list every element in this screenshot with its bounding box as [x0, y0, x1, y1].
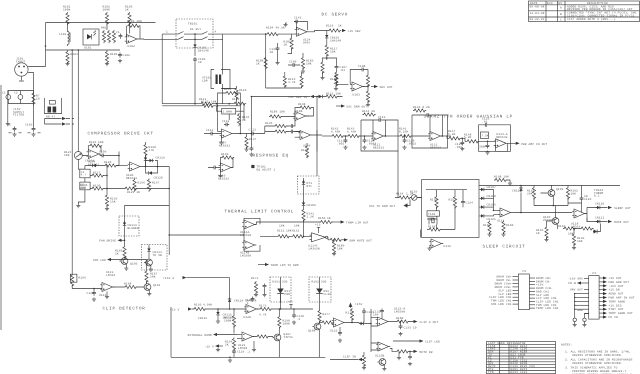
wire U109 input/out: [295, 116, 322, 137]
capacitor C131: [362, 308, 374, 323]
diode CR120 feedback bottom: [146, 167, 163, 180]
resistor R194: [225, 338, 236, 351]
svg-text:R1485.9K: R1485.9K: [464, 133, 472, 139]
resistor R176 left: [188, 333, 237, 337]
svg-text:R171: R171: [251, 277, 259, 280]
svg-text:CR114TH SW: CR114TH SW: [153, 251, 162, 257]
svg-text:THRM LIM OUT: THRM LIM OUT: [346, 222, 369, 225]
svg-text:C157 ADDED NOTE 3 (REV---): C157 ADDED NOTE 3 (REV---): [567, 17, 616, 21]
svg-text:DS1PWR: DS1PWR: [285, 290, 291, 296]
svg-text:R192 330: R192 330: [312, 281, 327, 284]
svg-text:R135: R135: [265, 122, 273, 125]
svg-text:R164: R164: [558, 225, 566, 228]
svg-text:CR119: CR119: [156, 157, 165, 160]
cap box C5: [78, 178, 90, 204]
wire from compressor to thermal comparators: [169, 234, 243, 236]
svg-text:+15 V: +15 V: [170, 309, 179, 312]
wire U107 out: [234, 133, 250, 135]
J2 pin 11 wire right: [529, 280, 551, 283]
svg-text:COMPRESSOR DRIVE CKT: COMPRESSOR DRIVE CKT: [88, 132, 154, 137]
power rail bracket: [45, 116, 62, 125]
feedback loop box U113: [479, 118, 511, 152]
junction column: [371, 309, 378, 352]
resistor R179: [346, 308, 354, 323]
test point TP101: [251, 165, 275, 171]
opto U101: [83, 29, 99, 50]
resistor R111: [199, 98, 213, 105]
resistor R196: [133, 179, 145, 192]
resistor R190: [278, 308, 290, 329]
resistor R147: [446, 130, 464, 140]
svg-text:R180: R180: [396, 317, 404, 320]
svg-text:U113-ANE5532: U113-ANE5532: [496, 133, 507, 139]
flag osc out: [369, 200, 410, 208]
ground right: [397, 352, 401, 360]
svg-text:R162: R162: [571, 190, 579, 193]
svg-text:THERMAL LIMIT CONTROL: THERMAL LIMIT CONTROL: [225, 210, 295, 215]
ground U124: [283, 23, 287, 27]
diode CR114: [147, 245, 162, 260]
wire opamp out: [99, 152, 119, 166]
svg-text:PWR AMP IN OUT: PWR AMP IN OUT: [521, 143, 547, 146]
svg-text:PWR AMP IN OUT: PWR AMP IN OUT: [609, 297, 635, 300]
svg-text:EXTERNAL DOME: EXTERNAL DOME: [188, 334, 212, 337]
capacitor C101: [116, 31, 122, 39]
capacitor C124a with ground: [479, 141, 490, 155]
svg-text:CR108: CR108: [487, 195, 496, 198]
svg-text:R104: R104: [71, 53, 79, 56]
J3 pin 12 flag right: [599, 276, 622, 280]
dc servo input rail vertical: [265, 34, 267, 88]
ground power filter: [6, 122, 10, 126]
power flag +15V: [342, 29, 361, 33]
svg-text:C121.001: C121.001: [455, 143, 463, 149]
capacitor C1 electrolytic: [2, 91, 11, 104]
wire bus to clip opamp: [72, 285, 102, 289]
svg-text:R144 2K: R144 2K: [362, 110, 375, 113]
right column resistor R177: [318, 303, 330, 323]
capacitor C142 feedback: [294, 17, 308, 31]
wire U111 out: [384, 135, 399, 137]
svg-text:U116: U116: [444, 245, 452, 248]
svg-text:R1475.9K: R1475.9K: [448, 130, 456, 136]
svg-text:OSC TO DRM OUT: OSC TO DRM OUT: [369, 205, 395, 208]
resistor R152: [290, 230, 312, 238]
J2 pin 16 wire right: [529, 297, 556, 300]
svg-text:U123-ALM339N: U123-ALM339N: [394, 308, 405, 314]
bus wire A to compressor pot: [77, 50, 79, 151]
svg-text:1: 1: [166, 31, 168, 34]
resistor R159 with ground: [483, 221, 492, 237]
capacitor C113: [249, 129, 257, 136]
J2 pin 9 wire left: [491, 303, 519, 306]
svg-text:C124: C124: [466, 202, 474, 205]
svg-text:C128: C128: [245, 299, 253, 302]
svg-text:+15: +15: [315, 224, 321, 227]
resistor R162: [566, 185, 578, 206]
svg-text:CLIP A OUT: CLIP A OUT: [420, 321, 439, 324]
svg-text:C126: C126: [87, 292, 95, 295]
resistor R141: [302, 207, 314, 236]
resistor R195: [105, 194, 118, 211]
capacitor C133 with ground: [398, 321, 416, 336]
svg-text:SRV OUT: SRV OUT: [380, 86, 393, 89]
op-amp U111: [371, 132, 385, 150]
J2 pin 19 wire right: [529, 307, 558, 310]
J3 pin 1 wire left: [568, 278, 589, 281]
feedback loop upper: [218, 88, 241, 106]
op-amp U118: [571, 209, 586, 226]
wire: [326, 55, 328, 60]
flag +15 lower rail: [170, 304, 246, 312]
flag +15V rail: [62, 117, 74, 120]
svg-text:R198 10K: R198 10K: [494, 176, 509, 179]
svg-text:11-04-98: 11-04-98: [530, 12, 545, 15]
svg-text:C142: C142: [294, 17, 302, 20]
svg-text:C129 .1: C129 .1: [237, 351, 250, 354]
ground: [105, 62, 109, 66]
oscillator box OSC101: [422, 180, 479, 238]
resistor R102: [103, 6, 111, 26]
J2 pin 14 wire right: [529, 290, 549, 293]
capacitor C141 with ground: [249, 146, 253, 156]
capacitor C117 with ground: [337, 135, 348, 149]
svg-text:NOTES:: NOTES:: [561, 344, 572, 347]
resistor network RN101: [101, 27, 116, 44]
resistor R125 feedback: [88, 141, 102, 152]
wire U114A out long: [255, 222, 321, 225]
svg-text:CR109: CR109: [487, 204, 496, 207]
contact S1b: [202, 31, 208, 34]
svg-text:R152: R152: [292, 230, 300, 233]
op-amp U117: [497, 208, 512, 223]
op-amp U123A: [376, 308, 406, 327]
connector J3: [589, 272, 599, 319]
capacitor C127 with ground: [262, 284, 266, 297]
resistor R116: [326, 25, 342, 33]
svg-text:R710: R710: [36, 95, 40, 101]
wire box2 to column: [280, 294, 282, 310]
svg-text:R156: R156: [430, 199, 438, 202]
svg-text:R125: R125: [89, 141, 97, 144]
resistor R145: [399, 128, 430, 138]
trimmer R155: [410, 191, 422, 201]
ground below U107: [219, 136, 223, 145]
svg-text:Y101: Y101: [428, 213, 436, 216]
svg-text:R160: R160: [506, 224, 514, 227]
capacitor C121 with ground: [455, 138, 464, 151]
wire osc internals: [426, 190, 467, 230]
wire pot to op-amp: [78, 151, 88, 156]
svg-text:R191 330: R191 330: [273, 281, 288, 284]
LP input wire: [322, 135, 331, 137]
svg-text:R110: R110: [239, 89, 247, 92]
capacitor C140 with ground: [292, 308, 304, 324]
resistor R136: [265, 130, 290, 133]
resistor R148: [464, 133, 479, 143]
J2 pin 4 wire left: [495, 286, 519, 289]
wire center drop: [194, 34, 196, 43]
svg-text:+15 SRV: +15 SRV: [348, 30, 361, 33]
resistor R104 lower: [66, 51, 78, 64]
capacitor C108: [358, 65, 366, 71]
feedback under loop U113: [496, 143, 516, 151]
svg-text:CLIP LED: CLIP LED: [425, 341, 440, 344]
op-amp U114B: [240, 241, 256, 258]
inductor L101 (coil): [59, 30, 70, 46]
svg-text:C: C: [560, 19, 562, 22]
J3 pin 21 flag right: [599, 312, 633, 316]
svg-text:U101: U101: [84, 47, 92, 50]
svg-text:+15 OUT: +15 OUT: [609, 277, 622, 280]
wire U118: [585, 208, 588, 222]
resistor R117: [325, 44, 337, 57]
resistor R138 feedback of U108: [295, 103, 314, 116]
J2 pin 5 wire left: [498, 289, 518, 292]
resistor R110: [235, 87, 247, 100]
resistor R118: [321, 58, 327, 76]
capacitor C105: [193, 57, 206, 64]
svg-text:R158: R158: [428, 226, 436, 229]
wire servo column: [326, 31, 328, 35]
svg-text:R137: R137: [249, 138, 257, 141]
svg-text:CR107: CR107: [487, 186, 496, 189]
terminal block TB101 dashed outline: [176, 19, 213, 48]
svg-text:R127: R127: [93, 172, 101, 175]
svg-text:SPK LED CH1: SPK LED CH1: [491, 303, 512, 306]
wire sense down: [303, 194, 305, 202]
resistor R156 in osc: [430, 196, 438, 209]
power stub +15: [288, 301, 294, 310]
svg-text:4: 4: [215, 31, 217, 34]
compressor top rail resistor R122: [325, 92, 341, 98]
contact S1a: [178, 31, 184, 34]
sub box XTAL: [427, 211, 440, 216]
capacitor C116 left of U110: [208, 166, 221, 170]
feedback loop U111: [361, 110, 398, 151]
wire: [194, 49, 196, 56]
op-amp U124: [295, 27, 311, 44]
svg-text:R173: R173: [259, 305, 267, 308]
svg-text:TEMP AGND: TEMP AGND: [609, 300, 626, 303]
svg-text:CR111: CR111: [595, 217, 604, 220]
svg-text:TB101: TB101: [188, 23, 197, 26]
diode CR117: [346, 322, 371, 325]
resistor R7: [32, 92, 40, 105]
svg-text:STBY OUT: STBY OUT: [609, 308, 624, 311]
svg-text:U118: U118: [571, 223, 579, 226]
J3 pin 13 flag right: [599, 280, 629, 284]
op-amp U106: [126, 162, 142, 180]
wire compressor out going right and down: [142, 167, 169, 256]
svg-text:RV: RV: [559, 2, 563, 5]
svg-text:C111: C111: [206, 129, 214, 132]
bottom right: wire from column to opamp C: [319, 322, 321, 324]
J3 pin 3 wire left: [570, 289, 589, 292]
diode CR103: [251, 95, 342, 99]
resistor R120: [366, 73, 369, 88]
flag SPK LED input: [93, 258, 147, 262]
wire TB row to servo input: [223, 33, 266, 35]
svg-text:SLEEP CIRCUIT: SLEEP CIRCUIT: [483, 245, 526, 250]
vactrol VT101: [202, 70, 230, 89]
svg-text:R126: R126: [104, 161, 112, 164]
svg-text:CR121: CR121: [487, 218, 496, 221]
resistor R184: [266, 27, 295, 36]
svg-text:CLIP IN: CLIP IN: [343, 356, 356, 359]
svg-text:R138: R138: [298, 103, 306, 106]
J2 pin 15 wire right: [529, 294, 549, 297]
svg-text:CR120: CR120: [154, 177, 163, 180]
resistor R112: [232, 98, 246, 105]
flag therm A: [332, 220, 369, 224]
svg-text:GND: GND: [577, 309, 583, 312]
op-amp U114A: [240, 220, 256, 237]
capacitor C129: [232, 349, 236, 358]
resistor R181: [390, 349, 414, 354]
wire EQ input row: [162, 105, 240, 107]
svg-text:R179: R179: [346, 312, 354, 315]
svg-text:R159: R159: [483, 224, 491, 227]
svg-text:+15: +15: [288, 301, 294, 304]
transistor Q108: [308, 322, 321, 357]
svg-text:R1134.7K: R1134.7K: [288, 78, 296, 84]
svg-text:+15 DIG: +15 DIG: [609, 304, 622, 307]
ground left bottom: [216, 348, 220, 352]
op-amp U122: [330, 318, 346, 333]
capacitor C103 with ground: [25, 124, 41, 137]
svg-text:C102: C102: [123, 54, 131, 57]
op-amp U120: [244, 305, 259, 320]
crystal Y101 plates: [427, 218, 437, 225]
svg-text:09-08-98: 09-08-98: [530, 6, 545, 9]
svg-text:CR104: CR104: [85, 160, 94, 163]
svg-text:SRV OUT: SRV OUT: [570, 289, 583, 292]
svg-text:Q105: Q105: [130, 263, 138, 266]
svg-text:MUTE OUT: MUTE OUT: [614, 221, 629, 224]
resistor R101: [63, 6, 71, 26]
ground below U110: [218, 170, 222, 178]
diode CR115: [216, 308, 234, 323]
capacitor C6 with ground: [7, 124, 22, 137]
svg-text:R133: R133: [224, 88, 232, 91]
resistor R186: [269, 111, 295, 119]
svg-text:U122: U122: [330, 330, 338, 333]
resistor R140 above U110: [221, 153, 235, 168]
svg-text:TEMP LED CH1: TEMP LED CH1: [536, 307, 559, 310]
J3 pin 18 flag right: [599, 300, 625, 304]
svg-text:CR115: CR115: [198, 317, 207, 320]
resistor R139 below: [301, 143, 309, 158]
svg-text:CR110: CR110: [595, 203, 604, 206]
svg-text:R8 47: R8 47: [46, 116, 55, 119]
J2 pin 17 wire right: [529, 300, 558, 303]
J3 pin 20 flag right: [599, 308, 624, 312]
diode CR104: [85, 160, 104, 170]
svg-text:DATE: DATE: [530, 2, 538, 5]
resistor R173: [257, 305, 313, 311]
capacitor C125: [580, 186, 592, 213]
feedback loop U112: [412, 106, 448, 148]
J2 pin 3 wire left: [495, 283, 519, 286]
svg-text:7.5K: 7.5K: [481, 135, 489, 138]
svg-text:C113: C113: [249, 129, 257, 132]
power flag +15 small: [349, 303, 363, 309]
resistor box R149: [481, 132, 489, 139]
resistor R188: [256, 57, 267, 70]
svg-text:B: B: [560, 13, 562, 16]
svg-text:1.0MH: 1.0MH: [223, 111, 232, 114]
wire input riser: [46, 23, 156, 67]
svg-text:CR106: CR106: [307, 204, 316, 207]
op-amp U109: [298, 131, 312, 148]
resistor R158 in osc: [428, 226, 441, 232]
connector J101 (XLR input): [15, 63, 28, 81]
capacitor C107: [327, 58, 347, 72]
ground below Q104: [147, 290, 151, 296]
svg-text:R105: R105: [110, 53, 118, 56]
J3 input flag PD: [569, 281, 589, 285]
LP final main line: [479, 140, 496, 142]
svg-text:C109: C109: [99, 151, 107, 154]
resistor R167 top: [145, 260, 158, 284]
op-amp U115 (left facing): [309, 224, 328, 251]
svg-text:R177: R177: [323, 313, 331, 316]
notes text: [561, 344, 633, 374]
LED dashed box DS101: [270, 277, 291, 303]
svg-text:R168: R168: [124, 283, 132, 286]
wire right column: [316, 130, 318, 152]
svg-text:U103: U103: [353, 94, 361, 97]
wire into op-amp U107: [218, 106, 241, 134]
ground bottom rail: [228, 357, 232, 363]
svg-text:R196: R196: [138, 182, 146, 185]
resistor R126: [104, 161, 128, 167]
diode CR107: [480, 186, 496, 210]
J2 pin 6 wire left: [498, 293, 518, 296]
op-amp U113: [494, 133, 508, 148]
svg-text:R146 8.2K: R146 8.2K: [413, 106, 430, 109]
resistor R189 with ground: [332, 239, 345, 256]
resistor R197: [147, 179, 159, 192]
flag OSC: [336, 104, 367, 108]
svg-text:-15 V: -15 V: [205, 346, 214, 349]
resistor R151: [260, 230, 292, 238]
svg-text:1K: 1K: [327, 217, 331, 220]
op-amp U121: [237, 332, 254, 350]
svg-text:C108: C108: [358, 65, 366, 68]
dashed thermal sense box: [298, 176, 320, 194]
resistor R113: [283, 72, 295, 88]
svg-text:R102100K: R102100K: [103, 6, 111, 12]
svg-text:R157: R157: [449, 199, 457, 202]
op-amp U104: [87, 150, 101, 164]
svg-text:C6: C6: [7, 124, 11, 127]
inductor L102 box: [217, 106, 245, 120]
svg-text:CLIP DETECTOR: CLIP DETECTOR: [103, 307, 146, 312]
svg-text:SPK LED: SPK LED: [93, 259, 106, 262]
resistor R172: [224, 308, 236, 333]
resistor R198 with ground: [494, 176, 512, 186]
wire U124 out: [308, 31, 327, 32]
capacitor C126 with ground: [87, 288, 97, 302]
fan feed rail: [125, 205, 170, 207]
capacitor C109: [99, 151, 107, 158]
J3 pin 14 flag right: [599, 284, 624, 288]
J3 ground b: [582, 314, 588, 327]
diode CR121: [480, 214, 496, 221]
signal flag LP out: [516, 142, 548, 146]
